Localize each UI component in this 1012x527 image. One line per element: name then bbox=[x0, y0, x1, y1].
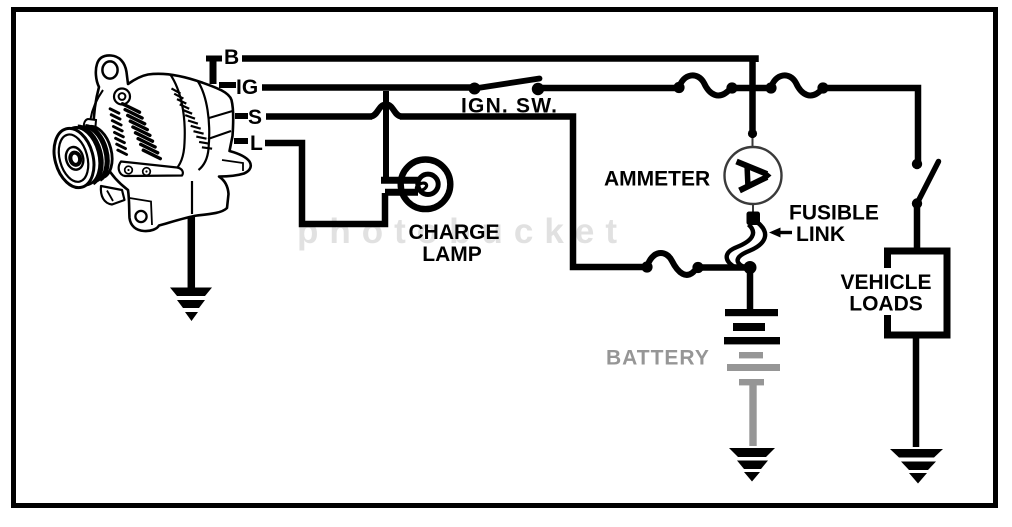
svg-text:B: B bbox=[224, 46, 239, 69]
svg-text:BATTERY: BATTERY bbox=[606, 347, 710, 370]
svg-text:IG: IG bbox=[236, 76, 258, 99]
svg-text:LINK: LINK bbox=[796, 223, 845, 246]
svg-text:AMMETER: AMMETER bbox=[604, 168, 710, 191]
svg-text:IGN. SW.: IGN. SW. bbox=[461, 95, 558, 118]
svg-text:FUSIBLE: FUSIBLE bbox=[789, 202, 879, 225]
svg-text:CHARGE: CHARGE bbox=[408, 221, 499, 244]
svg-text:VEHICLE: VEHICLE bbox=[840, 271, 931, 294]
svg-text:S: S bbox=[248, 106, 262, 129]
svg-text:L: L bbox=[250, 132, 263, 155]
svg-text:LOADS: LOADS bbox=[849, 293, 923, 316]
svg-text:LAMP: LAMP bbox=[422, 243, 482, 266]
